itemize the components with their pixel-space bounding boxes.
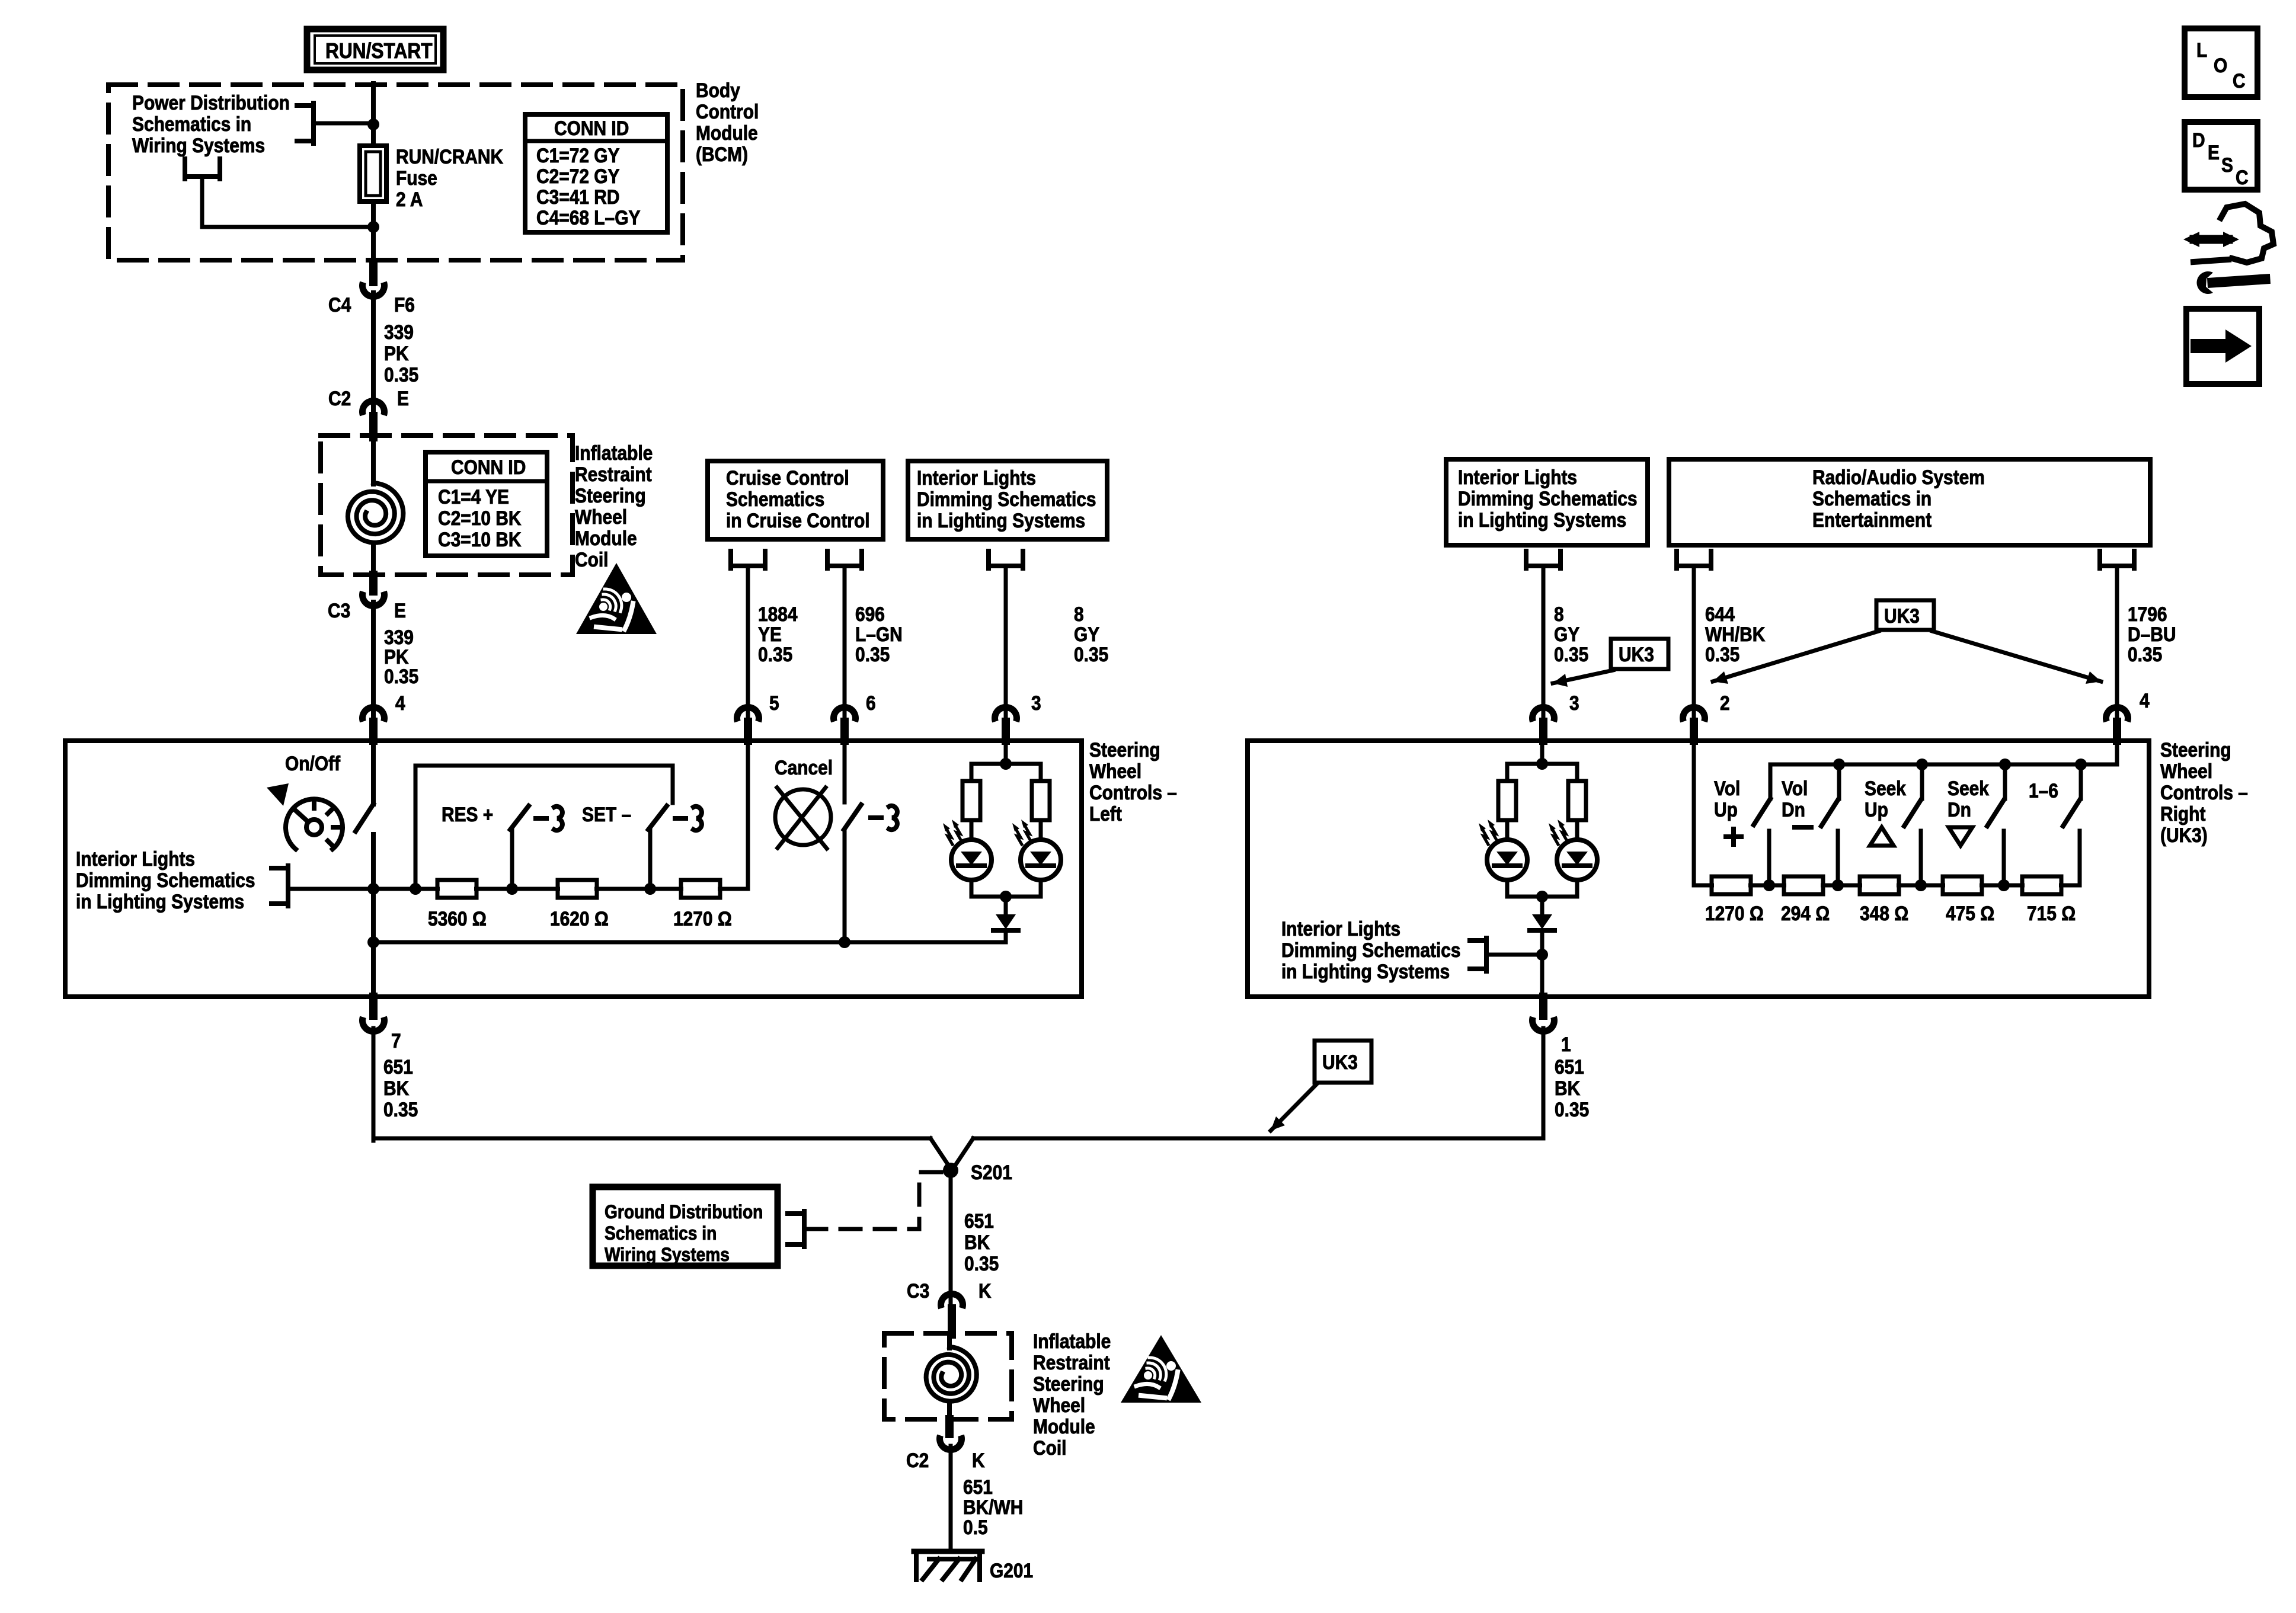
wire below On/Off switch [371,834,376,997]
wire Cancel to lower bus [843,831,847,942]
UK3 callout (left) [1611,639,1668,669]
svg-text:Up: Up [1714,798,1738,821]
svg-text:BK: BK [383,1077,409,1099]
svg-text:in Lighting Systems: in Lighting Systems [76,890,244,913]
resistor ladder bus [373,887,720,891]
svg-text:3: 3 [1031,692,1041,714]
svg-text:Wheel: Wheel [1089,760,1141,782]
svg-text:Interior Lights: Interior Lights [917,466,1036,489]
svg-text:4: 4 [2140,689,2150,712]
reference bracket below Wiring Systems [183,159,187,179]
svg-text:O: O [2214,54,2227,76]
svg-text:4: 4 [395,692,405,714]
svg-text:644: 644 [1705,603,1735,625]
coil 2 dashed box [884,1333,1012,1419]
svg-text:Cruise Control: Cruise Control [726,466,849,489]
pin 7 connector [369,997,378,1016]
svg-text:RES +: RES + [442,803,493,825]
right LED right [1575,820,1579,840]
SRS warning triangle [576,563,657,634]
svg-text:C1=4 YE: C1=4 YE [438,485,509,508]
svg-text:SET –: SET – [582,803,631,825]
svg-text:3: 3 [1569,692,1579,714]
node - cancel at lower bus [839,936,850,948]
svg-text:F6: F6 [394,293,415,316]
ground G201 [914,1549,982,1554]
svg-text:5360 Ω: 5360 Ω [428,907,487,930]
svg-text:K: K [978,1279,992,1302]
resistor 348 ohm [1860,876,1899,894]
wire pin6 to Cancel switch [843,741,847,802]
resistor 475 ohm [1943,876,1982,894]
svg-text:CONN ID: CONN ID [451,456,526,478]
svg-text:Interior Lights: Interior Lights [1458,466,1577,488]
svg-text:Vol: Vol [1714,777,1740,799]
forward arrow icon box [2186,309,2259,384]
svg-text:C3=10 BK: C3=10 BK [438,528,521,551]
svg-text:1620 Ω: 1620 Ω [550,907,609,930]
svg-text:Left: Left [1089,802,1122,825]
wire 1884 YE 0.35 [746,568,750,716]
svg-text:Ground Distribution: Ground Distribution [605,1202,763,1222]
keypad resistor chain [1694,884,2080,888]
SRS warning triangle 2 [1121,1335,1201,1403]
svg-text:C2=72 GY: C2=72 GY [536,165,620,187]
connector C4-F6 [359,281,388,300]
resistor 294 ohm [1784,876,1823,894]
CONN ID table (coil) [426,452,547,556]
bracket and dashed tie to S201 [802,1211,807,1247]
svg-text:L–GN: L–GN [855,623,903,645]
illuminated LED left [970,820,974,840]
svg-text:0.35: 0.35 [758,643,792,665]
svg-text:C2=10 BK: C2=10 BK [438,507,521,529]
wire 651 BK 0.35 (right) [1542,1028,1546,1138]
svg-text:Schematics in: Schematics in [132,113,251,135]
LED resistor right [1032,781,1050,820]
svg-text:K: K [972,1449,985,1471]
wire pin4 into On/Off switch [371,741,376,804]
Steering Wheel Controls - Right module box [1248,741,2149,997]
resistor 1270 ohm (right) [1712,876,1751,894]
svg-text:651: 651 [1555,1055,1584,1078]
svg-text:(BCM): (BCM) [696,143,748,165]
svg-text:339: 339 [384,321,414,343]
svg-text:YE: YE [758,623,782,645]
svg-text:C2: C2 [328,387,351,409]
wire 1270 resistor to pin5 riser [746,741,750,889]
svg-text:Module: Module [1033,1415,1095,1438]
node - RES contact [506,883,518,895]
RES+ switch [510,830,514,889]
svg-text:1270 Ω: 1270 Ω [1705,902,1764,924]
Vol Up switch [1754,799,1770,825]
svg-text:Interior Lights: Interior Lights [1281,917,1400,940]
gauge icon [286,799,343,849]
svg-text:S201: S201 [971,1161,1012,1183]
svg-text:UK3: UK3 [1884,604,1920,627]
drop to wire 1884 [728,551,733,568]
svg-text:UK3: UK3 [1322,1051,1358,1073]
svg-text:Wheel: Wheel [2160,760,2212,782]
right LED top tee [1507,762,1577,766]
Seek Up switch [1916,759,1928,770]
svg-text:0.35: 0.35 [964,1252,999,1275]
svg-text:Inflatable: Inflatable [575,441,653,464]
wire pin4 to keypad bus [2115,741,2119,764]
svg-text:Restraint: Restraint [1033,1351,1110,1374]
clockspring coil symbol [348,483,404,543]
svg-text:Steering: Steering [2160,738,2231,761]
svg-text:C3=41 RD: C3=41 RD [536,185,619,208]
Interior Lights Dimming reference box (left) [908,461,1107,539]
svg-text:Interior Lights: Interior Lights [76,847,195,870]
svg-text:Controls –: Controls – [1089,781,1177,804]
1-6 switch [2075,759,2087,770]
resistor 715 ohm [2022,876,2061,894]
wire 8 GY 0.35 (right) [1542,568,1546,716]
svg-text:6: 6 [866,692,876,714]
On/Off switch blade [356,804,373,831]
svg-text:GY: GY [1074,623,1099,645]
right LED resistor right [1568,781,1586,820]
svg-text:C1=72 GY: C1=72 GY [536,144,620,167]
svg-text:0.5: 0.5 [963,1516,988,1538]
node - SET contact [644,883,656,895]
svg-text:Radio/Audio System: Radio/Audio System [1812,466,1985,488]
svg-text:D–BU: D–BU [2128,623,2176,645]
svg-text:Module: Module [575,527,637,549]
reference bracket to feed node [311,103,316,143]
Steering Wheel Controls - Left module box [65,741,1082,997]
svg-text:651: 651 [964,1209,994,1232]
svg-text:1–6: 1–6 [2029,779,2058,802]
wire pin3 to right LED pair [1540,741,1544,764]
Ground Distribution reference box [593,1187,778,1266]
wire out of coil 2 [947,1404,952,1419]
splice S201 [943,1163,958,1178]
drop to wire 696 [825,551,830,568]
wire - fuse to BCM edge [371,201,376,263]
resistor 1270 ohm [681,880,720,898]
Vol Dn switch [1833,759,1845,770]
wrench icon [2212,279,2265,283]
svg-text:Seek: Seek [1865,777,1906,799]
svg-text:C2: C2 [906,1449,929,1471]
svg-text:0.35: 0.35 [1555,1098,1589,1121]
svg-text:0.35: 0.35 [1554,643,1588,665]
svg-text:Coil: Coil [1033,1436,1066,1459]
svg-text:RUN/CRANK: RUN/CRANK [396,145,503,168]
wire to splice S201 from right [973,1137,1543,1141]
resistor 5360 ohm [437,880,477,898]
svg-text:0.35: 0.35 [383,1098,418,1121]
top loop bus RES/SET [414,766,418,889]
Body Control Module (BCM) dashed box [108,85,683,260]
svg-text:Schematics in: Schematics in [605,1223,717,1244]
svg-text:Schematics: Schematics [726,488,824,510]
svg-text:Dimming Schematics: Dimming Schematics [76,869,255,891]
Radio/Audio System reference box [1669,459,2150,545]
LED resistor left [962,781,980,820]
node - left leg [410,883,421,895]
svg-text:Power Distribution: Power Distribution [132,91,290,114]
wire - RUN/START feed into BCM [371,84,376,146]
svg-text:BK: BK [1555,1077,1580,1099]
right LED left [1505,820,1510,840]
svg-text:651: 651 [963,1476,993,1498]
svg-text:Fuse: Fuse [396,167,437,189]
svg-text:Wiring Systems: Wiring Systems [605,1244,730,1265]
svg-text:0.35: 0.35 [1705,643,1739,665]
wire 651 BK/WH 0.5 [949,1446,953,1549]
LOC icon box [2185,28,2257,97]
svg-text:Steering: Steering [1033,1372,1104,1395]
LED bottom tee [971,895,1041,899]
svg-text:Up: Up [1865,798,1888,821]
svg-text:Inflatable: Inflatable [1033,1330,1111,1352]
connector C2-K [945,1419,954,1434]
svg-text:L: L [2196,39,2207,61]
UK3 callout (harness) [1315,1041,1371,1083]
fuse F - RUN/CRANK Fuse 2A [360,146,386,201]
svg-text:RUN/START: RUN/START [325,39,433,63]
right LED resistor left [1498,781,1516,820]
svg-text:Wheel: Wheel [1033,1394,1085,1416]
svg-text:Dn: Dn [1948,798,1971,821]
svg-text:PK: PK [384,342,409,364]
svg-text:WH/BK: WH/BK [1705,623,1765,645]
wire stub out of BCM [369,263,378,282]
resistor 1620 ohm [558,880,597,898]
svg-text:Seek: Seek [1948,777,1989,799]
svg-text:348 Ω: 348 Ω [1860,902,1908,924]
wire 651 BK 0.35 (left) [372,1028,376,1141]
svg-text:Restraint: Restraint [575,463,652,485]
svg-text:in Lighting Systems: in Lighting Systems [1281,960,1450,982]
wire 8 GY 0.35 (left) [1004,568,1008,716]
svg-text:Control: Control [696,100,759,123]
svg-text:G201: G201 [990,1559,1033,1582]
svg-text:(UK3): (UK3) [2160,824,2208,846]
svg-text:294 Ω: 294 Ω [1781,902,1830,924]
node - feed junction above fuse [367,119,379,130]
svg-text:Wiring Systems: Wiring Systems [132,134,265,156]
wire 1796 D-BU 0.35 [2115,568,2119,716]
svg-text:CONN ID: CONN ID [554,117,629,139]
svg-text:C4: C4 [328,293,351,316]
right LED bottom tee [1507,895,1577,899]
svg-text:GY: GY [1554,623,1579,645]
wire 339 PK 0.35 (upper) [371,293,376,411]
CONN ID table (BCM) [525,114,667,232]
svg-text:1884: 1884 [758,603,798,625]
Inflatable Restraint Steering Wheel Module Coil dashed box [321,436,573,575]
power feed RUN/START label box [307,29,443,70]
lower return bus [373,940,1006,945]
wire S201 down [949,1170,953,1303]
right diode [1540,897,1544,916]
svg-text:5: 5 [769,692,779,714]
node - dimmer tap right [1536,949,1548,961]
svg-text:Steering: Steering [1089,738,1160,761]
Seek Dn switch [1999,759,2011,770]
svg-text:Dimming Schematics: Dimming Schematics [1458,487,1638,510]
UK3 callout (right) [1876,600,1934,630]
svg-text:1270 Ω: 1270 Ω [673,907,732,930]
svg-text:0.35: 0.35 [384,665,418,687]
drop to wire 8 GY right [1524,551,1528,568]
svg-text:E: E [397,387,409,409]
svg-text:475 Ω: 475 Ω [1946,902,1994,924]
pin 1 connector [1539,997,1547,1016]
svg-text:2: 2 [1720,692,1730,714]
svg-text:Right: Right [2160,802,2206,825]
rotary pointer arrow [267,783,289,806]
svg-text:Wheel: Wheel [575,505,627,528]
wire 644 WH/BK 0.35 [1692,568,1696,716]
svg-text:in Lighting Systems: in Lighting Systems [1458,508,1626,531]
svg-text:Dimming Schematics: Dimming Schematics [1281,939,1461,961]
illuminated LED right [1039,820,1043,840]
svg-text:BK/WH: BK/WH [963,1496,1023,1518]
node - junction below fuse [367,221,379,233]
svg-text:Dn: Dn [1782,798,1805,821]
svg-text:C3: C3 [328,599,350,622]
svg-text:0.35: 0.35 [384,363,418,386]
svg-text:Body: Body [696,79,740,101]
Cruise Control Schematics reference box [708,461,883,539]
drop to wire 1796 [2097,551,2102,568]
wire diode to pin1 [1540,930,1544,997]
node - dimmer bus at main wire [367,883,379,895]
svg-text:8: 8 [1074,603,1084,625]
svg-text:On/Off: On/Off [285,752,340,775]
svg-text:715 Ω: 715 Ω [2027,902,2076,924]
svg-text:Dimming Schematics: Dimming Schematics [917,488,1096,510]
wire into coil [371,437,376,484]
LED pair top tee [971,762,1041,766]
connector C3-E [369,575,378,591]
svg-text:Coil: Coil [575,548,608,571]
svg-text:E: E [2208,141,2220,164]
wire to splice S201 [373,1137,930,1141]
vehicle service icon [2221,204,2273,263]
svg-text:E: E [394,599,406,622]
DESC icon box [2185,122,2257,190]
svg-text:UK3: UK3 [1619,643,1654,665]
svg-text:C3: C3 [907,1279,929,1302]
svg-text:Module: Module [696,121,758,144]
svg-text:1796: 1796 [2128,603,2167,625]
wire into coil 2 [947,1334,952,1348]
svg-text:in Lighting Systems: in Lighting Systems [917,509,1085,532]
keypad top bus [1770,763,2117,767]
svg-text:Vol: Vol [1782,777,1808,799]
svg-text:Cancel: Cancel [775,756,833,779]
svg-text:696: 696 [855,603,885,625]
svg-text:S: S [2221,153,2233,176]
cancel lamp circle-X [775,789,831,845]
svg-text:C4=68 L–GY: C4=68 L–GY [536,206,640,229]
svg-text:C: C [2236,166,2249,188]
bracket to dimmer bus [286,866,290,906]
wire pin3 to LED pair [1004,741,1008,764]
SET- switch [648,830,653,889]
svg-text:2 A: 2 A [396,188,423,210]
svg-text:Steering: Steering [575,484,646,507]
clockspring coil symbol 2 [926,1347,977,1401]
wire 696 L-GN 0.35 [843,568,847,716]
Cancel switch blade [844,805,861,830]
drop to wire 644 [1674,551,1679,568]
wire out of coil [371,546,376,575]
svg-text:Schematics in: Schematics in [1812,487,1932,510]
svg-text:651: 651 [383,1055,413,1078]
Interior Lights Dimming reference box (right) [1446,459,1648,545]
svg-text:0.35: 0.35 [1074,643,1108,665]
svg-text:in Cruise Control: in Cruise Control [726,509,870,532]
svg-text:BK: BK [964,1231,990,1253]
wire pin2 feed to keypad [1692,741,1696,885]
svg-text:D: D [2192,129,2205,151]
svg-text:Entertainment: Entertainment [1812,508,1932,531]
svg-text:1: 1 [1561,1033,1571,1055]
svg-text:C: C [2233,69,2246,92]
drop to wire 8 GY left [986,551,991,568]
svg-text:7: 7 [391,1029,401,1052]
diode to lower bus [1004,897,1008,916]
svg-text:0.35: 0.35 [855,643,890,665]
svg-text:0.35: 0.35 [2128,643,2162,665]
svg-text:8: 8 [1554,603,1564,625]
connector C2-E [359,398,388,416]
wire 339 PK 0.35 (lower) [371,602,376,716]
node - lower bus at main wire [367,936,379,948]
svg-text:Controls –: Controls – [2160,781,2248,804]
